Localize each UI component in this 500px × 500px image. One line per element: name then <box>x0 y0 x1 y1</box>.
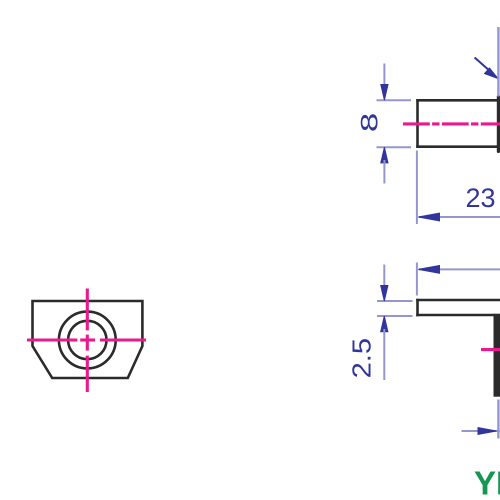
dim 23 line <box>419 216 500 218</box>
dim 8 arrow down <box>381 85 388 101</box>
dim 8 arrow up <box>381 147 388 163</box>
front view inner circle <box>68 321 106 359</box>
svg-text:23: 23 <box>465 183 495 213</box>
dim 23 arrow left <box>418 213 439 221</box>
svg-text:2.5: 2.5 <box>347 338 376 378</box>
centerline fragment in top view <box>481 348 500 351</box>
svg-text:8: 8 <box>357 113 383 132</box>
front view vertical centerline <box>86 289 89 393</box>
bottom extension line right edge <box>497 400 499 439</box>
front view horizontal centerline <box>27 338 146 341</box>
bottom dim line <box>462 430 500 432</box>
side view barrel outline (top right) <box>416 99 500 148</box>
dim 2.5 upper tail <box>383 265 385 290</box>
front view outline (bottom left) <box>33 301 143 378</box>
dim 2.5 arrow up <box>381 316 388 332</box>
dim 2.5 extension line upper <box>377 300 413 302</box>
top dim extension line <box>416 263 418 296</box>
dim 2.5 arrow down <box>381 286 388 302</box>
bottom dim arrow right <box>478 428 497 435</box>
leader arrow to barrel corner <box>475 58 491 73</box>
dim 8 line upper tail <box>383 64 385 89</box>
top view leg (cropped, filled) <box>494 314 500 397</box>
dim 23 extension line <box>416 151 418 225</box>
dim 2.5 extension line lower <box>377 315 413 317</box>
side view barrel right end (cropped head) <box>497 95 500 153</box>
centerline of barrel <box>403 122 500 125</box>
top view flange outline (bottom right) <box>416 299 500 317</box>
dim 2.5 lower tail <box>383 329 385 380</box>
top dim arrow left <box>418 266 439 274</box>
front view outer circle <box>59 312 116 369</box>
dim 8 extension line top <box>377 99 412 101</box>
extension line at right edge top <box>497 27 499 97</box>
dim 8 extension line bottom <box>377 146 412 148</box>
top dim line <box>419 268 500 270</box>
dim 8 line lower tail <box>383 160 385 184</box>
svg-text:YK: YK <box>474 465 500 500</box>
